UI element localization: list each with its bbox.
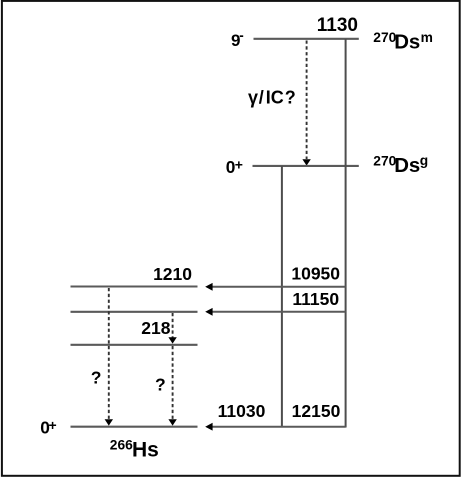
svg-text:+: +: [235, 157, 243, 173]
svg-text:-: -: [239, 28, 244, 43]
svg-text:270: 270: [373, 154, 396, 169]
svg-text:12150: 12150: [292, 401, 341, 421]
svg-text:Hs: Hs: [132, 439, 159, 462]
level 270Ds-g ground line: [253, 165, 359, 167]
svg-text:+: +: [49, 417, 57, 433]
level Hs 1210 line: [71, 285, 198, 287]
svg-text:1210: 1210: [153, 264, 192, 284]
svg-text:1130: 1130: [317, 15, 358, 36]
svg-text:Ds: Ds: [394, 155, 420, 177]
level Hs 218-fed line: [71, 344, 198, 346]
svg-text:?: ?: [285, 88, 296, 108]
svg-text:m: m: [421, 30, 433, 45]
svg-text:γ: γ: [248, 88, 258, 108]
svg-text:11150: 11150: [292, 289, 339, 309]
svg-text:270: 270: [373, 30, 396, 45]
dashed transition from 218 level to ground: [172, 346, 174, 420]
svg-text:IC: IC: [266, 88, 284, 108]
svg-text:10950: 10950: [291, 264, 340, 284]
svg-text:/: /: [259, 88, 264, 108]
dashed transition from 1210 to ground: [108, 288, 110, 420]
level 270Ds-m isomer line: [254, 38, 359, 40]
level Hs middle line: [71, 311, 198, 313]
svg-text:?: ?: [91, 368, 102, 388]
level Hs ground line: [71, 426, 198, 428]
svg-text:?: ?: [155, 374, 166, 394]
dashed 218 transition: [172, 313, 174, 338]
svg-text:266: 266: [110, 437, 133, 452]
alpha arrow to Hs ground level: [212, 426, 346, 428]
alpha arrow to 1210 level: [212, 286, 346, 288]
svg-text:Ds: Ds: [394, 32, 420, 54]
svg-text:218: 218: [141, 318, 170, 338]
svg-text:g: g: [420, 153, 428, 168]
gamma/IC dashed transition arrow: [306, 41, 308, 160]
alpha column left vertical: [281, 166, 283, 428]
alpha column right vertical: [345, 39, 347, 428]
svg-text:11030: 11030: [218, 401, 266, 421]
alpha arrow to second level: [212, 311, 346, 313]
